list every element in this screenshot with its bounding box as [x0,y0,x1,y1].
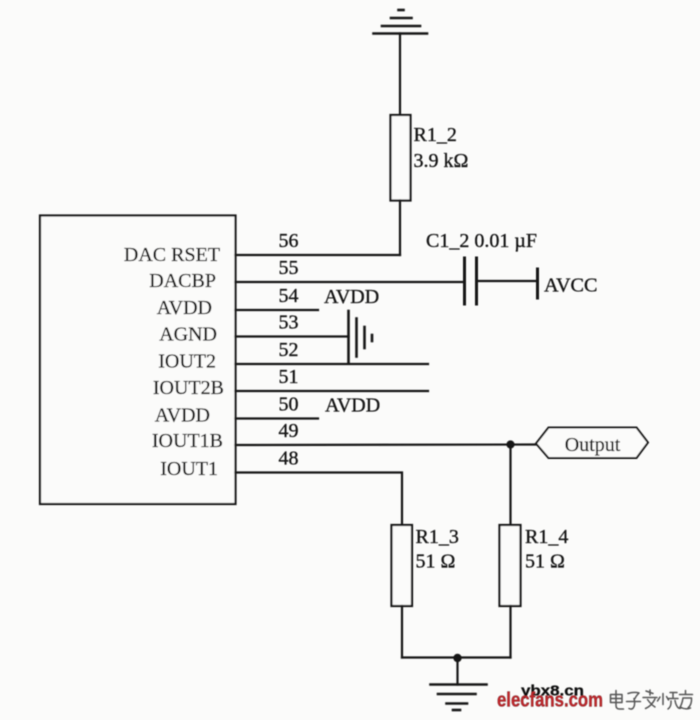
Output tag [536,428,648,459]
wire pin 56 [236,254,401,256]
junction node: bottom rail [453,654,461,662]
hanzi zi [627,692,641,709]
svg-text:C1_2 0.01 µF: C1_2 0.01 µF [426,230,537,252]
svg-text:AVDD: AVDD [324,286,379,308]
wire pin 53 [236,335,349,337]
wire pin 50 [236,417,319,419]
AVCC terminal bar [536,269,539,298]
svg-text:55: 55 [279,257,299,279]
wire R1_3 bottom [401,606,403,658]
svg-text:IOUT2: IOUT2 [158,351,216,373]
hanzi fa [643,690,657,709]
svg-text:R1_3: R1_3 [416,526,459,548]
wire pin 49 [236,443,537,446]
wire pin 52 [236,363,429,365]
wire R1_4 bottom [509,606,511,658]
svg-text:AVDD: AVDD [157,297,212,319]
wire junction down to R1_4 [509,445,511,526]
svg-text:3.9 kΩ: 3.9 kΩ [414,150,469,172]
svg-text:R1_4: R1_4 [525,526,568,548]
svg-text:49: 49 [279,420,299,442]
resistor R1_4 [500,525,521,606]
resistor R1_2 [391,115,411,201]
svg-text:AVCC: AVCC [544,275,598,297]
svg-text:51 Ω: 51 Ω [416,551,456,573]
svg-text:54: 54 [279,285,299,307]
svg-text:51 Ω: 51 Ω [525,551,565,573]
wire bottom rail [402,656,511,658]
resistor R1_3 [392,525,413,606]
IC U1 body [40,216,236,505]
wire pin 51 [236,390,429,392]
svg-text:50: 50 [279,394,299,416]
wire to bottom ground [456,658,458,685]
svg-text:IOUT1: IOUT1 [160,458,218,480]
svg-text:IOUT2B: IOUT2B [153,377,224,399]
ground (small, rotated, at AGND pin 53) [349,311,373,364]
wire pin 54 [236,309,319,311]
ground (bottom earth) [431,685,487,711]
wire R1_2 to pin 56 [399,201,401,256]
hanzi you [680,691,693,709]
svg-text:51: 51 [279,366,299,388]
junction node: output [506,440,514,448]
watermark chinese characters [611,690,693,709]
wire pin 55 [236,281,465,283]
svg-text:52: 52 [279,339,299,361]
svg-text:IOUT1B: IOUT1B [152,430,223,452]
wire C1_2 to AVCC [478,280,537,282]
wire pin 48 [236,473,403,526]
svg-text:53: 53 [279,312,299,334]
ground (top, inverted earth) [374,10,428,34]
svg-text:R1_2: R1_2 [414,124,457,146]
svg-text:48: 48 [279,448,299,470]
svg-text:Output: Output [565,434,621,456]
svg-text:56: 56 [279,230,299,252]
svg-text:DACBP: DACBP [149,270,216,292]
svg-text:DAC RSET: DAC RSET [124,244,220,266]
capacitor C1_2 [465,258,477,304]
hanzi dian [611,691,624,710]
hanzi shao [658,693,682,710]
svg-text:AGND: AGND [159,324,217,346]
svg-text:AVDD: AVDD [155,405,210,427]
wire top ground to R1_2 [399,34,401,116]
svg-text:elecfans.com: elecfans.com [497,690,603,712]
svg-text:AVDD: AVDD [325,395,380,417]
